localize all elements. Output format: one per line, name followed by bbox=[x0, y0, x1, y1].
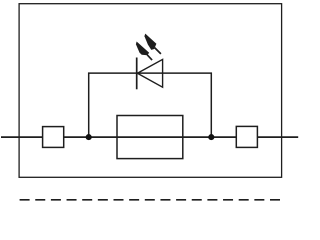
LED light arrow 1 (lower) bbox=[136, 42, 152, 61]
wire LED branch (left riser, top run, right riser) bbox=[89, 73, 212, 137]
enclosure outline bbox=[19, 4, 282, 178]
main through-wire bbox=[1, 136, 298, 138]
left clamp terminal bbox=[43, 127, 64, 148]
LED light arrow 2 (upper) bbox=[144, 34, 161, 54]
LED D1 triangle (anode, pointing left) bbox=[137, 59, 162, 87]
node A (left junction) bbox=[86, 134, 92, 140]
dashed marking line bbox=[20, 199, 280, 201]
node B (right junction) bbox=[208, 134, 214, 140]
LED D1 cathode bar bbox=[136, 58, 138, 90]
right clamp terminal bbox=[236, 126, 257, 147]
fuse element F1 bbox=[117, 116, 183, 159]
